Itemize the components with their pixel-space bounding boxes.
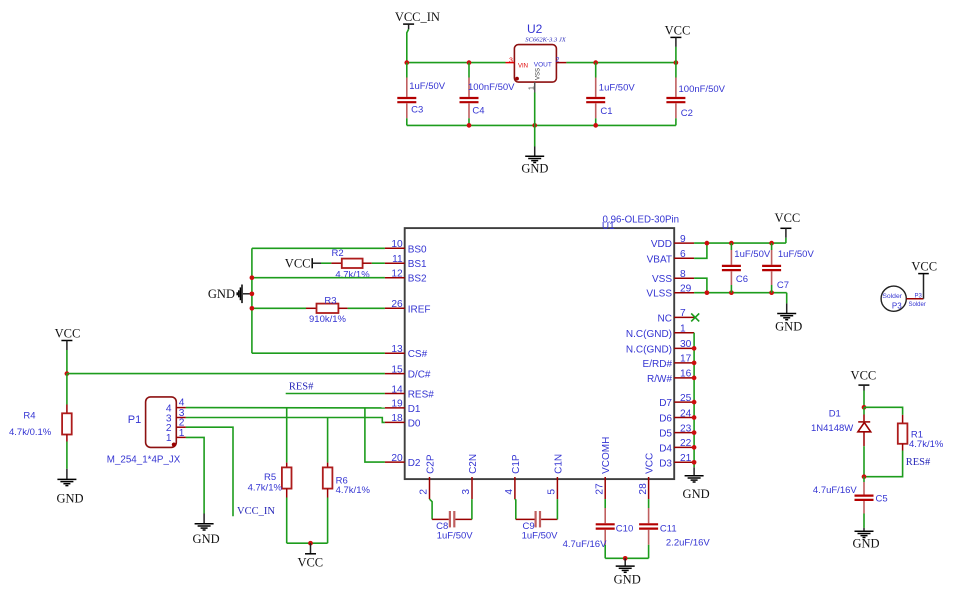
svg-text:1: 1 [166, 433, 172, 444]
svg-text:27: 27 [594, 483, 605, 495]
svg-text:9: 9 [680, 234, 686, 245]
power flag VCC (side, at R2) [285, 257, 321, 271]
wire D/C# long [67, 373, 385, 375]
svg-text:26: 26 [391, 299, 403, 310]
pin 12 BS2 [385, 269, 427, 285]
node junction pin21 [692, 460, 697, 465]
svg-text:GND: GND [521, 161, 548, 175]
svg-text:3: 3 [461, 489, 472, 495]
svg-text:RES#: RES# [906, 457, 931, 468]
power flag VCC (above C7) [775, 211, 801, 238]
svg-text:D/C#: D/C# [408, 370, 431, 381]
svg-text:N.C(GND): N.C(GND) [626, 329, 672, 340]
pin 27 VCOMH [594, 437, 612, 499]
svg-text:VCC: VCC [911, 260, 937, 274]
svg-text:12: 12 [391, 269, 403, 280]
ground GND (below P1) [193, 514, 220, 547]
pin 5 C1N [547, 454, 565, 499]
svg-text:P1: P1 [128, 414, 141, 426]
svg-text:GND: GND [852, 536, 879, 550]
svg-text:30: 30 [680, 339, 692, 350]
resistor R5 4.7k/1% [248, 408, 292, 543]
wire P1.4 to D1 [186, 407, 385, 409]
node junction VBAT/VDD [705, 241, 710, 246]
pin 1 N.C(GND) [626, 324, 694, 340]
resistor R6 4.7k/1% [323, 418, 371, 544]
svg-text:100nF/50V: 100nF/50V [468, 82, 515, 93]
svg-text:15: 15 [391, 364, 403, 375]
svg-text:VSS: VSS [535, 68, 541, 80]
node junction pin24 [692, 415, 697, 420]
pin 3 C2N [461, 454, 479, 499]
node junction BS2 [250, 275, 255, 280]
wire P1.2 to VCC_IN label [186, 427, 233, 516]
node junction D1/R1 bottom [862, 474, 867, 479]
wire P1.1 to GND [186, 437, 204, 513]
svg-text:R/W#: R/W# [647, 374, 672, 385]
node junction C6 bottom [729, 290, 734, 295]
power flag VCC (at P3) [911, 260, 937, 274]
connector P1 M_254_1*4P_JX [107, 397, 186, 466]
svg-text:19: 19 [391, 399, 403, 410]
power flag VCC (above D1) [851, 369, 877, 391]
svg-text:16: 16 [680, 369, 692, 380]
capacitor C7 1uF/50V [762, 243, 814, 293]
wire VBAT to VDD [694, 243, 707, 258]
svg-text:4.7k/1%: 4.7k/1% [336, 485, 371, 496]
pin 30 N.C(GND) [626, 339, 694, 355]
ground GND (below R4) [56, 469, 83, 506]
wire R5/R6 common [287, 542, 328, 544]
svg-text:C7: C7 [777, 280, 789, 291]
pin 15 D/C# [385, 364, 431, 380]
wire BS0 [252, 247, 385, 249]
power flag VCC (left, above R4) [55, 327, 81, 351]
pin 19 D1 [385, 399, 421, 415]
wire VCC to D1 junction [863, 391, 865, 408]
svg-text:P3: P3 [915, 293, 923, 299]
node junction pin23 [692, 430, 697, 435]
wire VCC drop right [785, 238, 787, 243]
svg-text:BS0: BS0 [408, 244, 427, 255]
svg-text:2: 2 [419, 489, 430, 495]
solder jumper P3 [881, 286, 926, 311]
svg-text:D0: D0 [408, 418, 421, 429]
svg-text:U1: U1 [602, 221, 615, 232]
svg-text:D1: D1 [829, 409, 841, 420]
svg-text:D7: D7 [659, 398, 672, 409]
svg-text:C1P: C1P [511, 454, 522, 474]
node junction VSS/VLSS [705, 290, 710, 295]
svg-text:17: 17 [680, 354, 692, 365]
wire VLSS rail [694, 292, 787, 294]
pin 23 D5 [659, 423, 694, 439]
node junction pin30 [692, 346, 697, 351]
svg-text:100nF/50V: 100nF/50V [679, 84, 726, 95]
svg-text:VCC: VCC [665, 24, 691, 38]
svg-text:R2: R2 [332, 248, 344, 259]
ground GND (side, rotated) [208, 285, 252, 304]
wire P1.3 to D0 (jog) [186, 418, 385, 423]
node junction C1 top [593, 60, 598, 65]
node junction C10/C11 GND [623, 556, 628, 561]
svg-text:C1: C1 [600, 106, 612, 117]
ground GND (below C10/C11) [614, 558, 641, 586]
svg-text:21: 21 [680, 453, 692, 464]
regulator U2 SC662K-3.3 JX [506, 22, 567, 93]
wire top rail left (VCC_IN net) [407, 62, 506, 64]
svg-text:2.2uF/16V: 2.2uF/16V [666, 537, 710, 548]
svg-text:C4: C4 [472, 106, 484, 117]
pin 3 stub [176, 417, 186, 419]
svg-text:D3: D3 [659, 458, 672, 469]
svg-text:10: 10 [391, 239, 403, 250]
pin 2 C2P [419, 454, 437, 499]
pin 3 VIN stub [506, 62, 515, 64]
wire U2 VSS to rail [534, 93, 536, 126]
wire P3 to VCC [923, 274, 925, 299]
svg-text:C3: C3 [411, 104, 423, 115]
svg-text:VCC: VCC [775, 211, 801, 225]
node junction D1/R1 top [862, 405, 867, 410]
node junction pin25 [692, 400, 697, 405]
wire VCC_IN drop [407, 29, 409, 62]
node junction pin16 [692, 376, 697, 381]
svg-text:24: 24 [680, 408, 692, 419]
svg-text:BS2: BS2 [408, 274, 427, 285]
node junction VCC_IN/C3 [404, 60, 409, 65]
svg-text:VIN: VIN [518, 64, 528, 70]
svg-text:28: 28 [638, 483, 649, 495]
wire right GND bus [693, 333, 695, 468]
node junction IREF [250, 306, 255, 311]
wire top rail right (VCC net) [566, 62, 676, 64]
svg-text:VOUT: VOUT [534, 62, 552, 69]
svg-text:VCC: VCC [55, 327, 81, 341]
wire bottom rail (GND net) [407, 124, 676, 126]
svg-text:RES#: RES# [289, 382, 314, 393]
capacitor C5 4.7uF/16V [813, 477, 888, 528]
node junction pin22 [692, 445, 697, 450]
svg-text:SC662K-3.3 JX: SC662K-3.3 JX [525, 37, 566, 44]
svg-text:GND: GND [775, 319, 802, 333]
pin 21 D3 [659, 453, 694, 469]
svg-text:P3: P3 [892, 301, 902, 310]
svg-text:C2N: C2N [468, 454, 479, 474]
wire to R1 [864, 407, 903, 415]
power flag VCC_IN [395, 10, 440, 29]
pin 17 E/RD# [643, 354, 695, 370]
diode D1 1N4148W [811, 407, 871, 476]
svg-text:GND: GND [683, 487, 710, 501]
svg-text:23: 23 [680, 423, 692, 434]
pin 6 VBAT [647, 249, 694, 265]
svg-text:N.C(GND): N.C(GND) [626, 344, 672, 355]
svg-text:U2: U2 [527, 22, 543, 36]
svg-text:20: 20 [391, 453, 403, 464]
svg-text:CS#: CS# [408, 349, 428, 360]
ground GND (below C5) [852, 528, 879, 551]
pin 24 D6 [659, 408, 694, 424]
svg-text:4: 4 [504, 489, 515, 495]
node junction C7 top [769, 241, 774, 246]
svg-text:C11: C11 [660, 524, 677, 535]
svg-text:18: 18 [391, 413, 403, 424]
wire BS2 [252, 277, 385, 279]
node junction VCC corner [674, 60, 679, 65]
svg-text:E/RD#: E/RD# [643, 359, 673, 370]
pin 1 stub [176, 436, 186, 438]
pin 20 D2 [385, 453, 421, 469]
pin 4 C1P [504, 454, 522, 499]
svg-text:8: 8 [680, 269, 686, 280]
svg-text:4.7k/1%: 4.7k/1% [335, 270, 370, 281]
wire VCC to junction [66, 350, 68, 374]
svg-text:4.7k/1%: 4.7k/1% [248, 483, 283, 494]
pin 7 NC [658, 308, 695, 324]
svg-text:13: 13 [391, 344, 403, 355]
svg-text:6: 6 [680, 249, 686, 260]
svg-text:GND: GND [208, 287, 235, 301]
svg-text:7: 7 [680, 308, 686, 319]
svg-text:C2: C2 [681, 108, 693, 119]
svg-text:VCC: VCC [851, 369, 877, 383]
svg-text:D5: D5 [659, 429, 672, 440]
svg-text:1uF/50V: 1uF/50V [599, 82, 636, 93]
svg-text:BS1: BS1 [408, 259, 427, 270]
capacitor C11 2.2uF/16V [639, 499, 710, 558]
wire VLSS to GND [786, 293, 788, 304]
svg-text:C5: C5 [876, 494, 888, 505]
pin 25 D7 [659, 393, 694, 409]
node junction C4 top [467, 60, 472, 65]
svg-text:1uF/50V: 1uF/50V [409, 81, 446, 92]
wire C10/C11 common [605, 557, 648, 559]
capacitor C9 1uF/50V (flying cap C1P-C1N) [515, 499, 558, 541]
svg-text:VCC_IN: VCC_IN [237, 506, 275, 517]
ground GND (below C7) [775, 303, 802, 333]
pin 18 D0 [385, 413, 421, 429]
resistor R3 910k/1% [252, 295, 385, 325]
svg-text:NC: NC [658, 313, 672, 324]
power flag VCC (top right) [665, 24, 691, 47]
capacitor C2 100nF/50V [666, 63, 725, 126]
capacitor C8 1uF/50V (flying cap C2P-C2N) [430, 499, 474, 541]
resistor R1 4.7k/1% [864, 415, 944, 477]
svg-text:VLSS: VLSS [646, 289, 672, 300]
pin 16 R/W# [647, 369, 694, 385]
svg-text:910k/1%: 910k/1% [309, 314, 347, 325]
svg-text:C6: C6 [736, 274, 748, 285]
svg-text:3: 3 [509, 58, 513, 65]
svg-text:Solder: Solder [909, 302, 926, 308]
svg-text:14: 14 [391, 384, 403, 395]
capacitor C1 1uF/50V [586, 63, 635, 126]
wire CS# [252, 352, 385, 354]
no-connect X on pin 7 [691, 313, 699, 321]
wire VCC drop [675, 47, 677, 63]
svg-text:VCC_IN: VCC_IN [395, 10, 440, 24]
wire VDD rail [694, 242, 786, 244]
capacitor C4 100nF/50V [460, 63, 516, 126]
svg-text:1: 1 [680, 324, 686, 335]
svg-text:GND: GND [56, 492, 83, 506]
wire vertical bus BS0/BS2/GND/IREF/CS# [251, 248, 253, 353]
capacitor C3 1uF/50V [397, 63, 445, 126]
svg-text:RES#: RES# [408, 390, 435, 401]
svg-text:VCC: VCC [645, 453, 656, 474]
svg-text:C2P: C2P [425, 454, 436, 474]
capacitor C10 4.7uF/16V [563, 499, 634, 558]
svg-text:D4: D4 [659, 443, 672, 454]
svg-text:25: 25 [680, 393, 692, 404]
svg-text:D6: D6 [659, 414, 672, 425]
svg-text:11: 11 [392, 254, 403, 265]
svg-text:GND: GND [614, 573, 641, 587]
power flag VCC (down, below R5/R6) [297, 543, 323, 569]
svg-text:GND: GND [193, 532, 220, 546]
node junction C6 top [729, 241, 734, 246]
pin 4 stub [176, 407, 186, 409]
svg-text:1uF/50V: 1uF/50V [734, 249, 771, 260]
node junction U2 VSS/GND [532, 123, 537, 128]
pin 13 CS# [385, 344, 428, 360]
svg-text:4.7k/0.1%: 4.7k/0.1% [9, 427, 52, 438]
pin 9 VDD [651, 234, 694, 250]
ground GND (right pin bus) [683, 467, 710, 501]
pin 28 VCC [638, 453, 656, 499]
svg-text:R5: R5 [264, 472, 276, 483]
svg-text:1uF/50V: 1uF/50V [778, 249, 815, 260]
svg-text:VBAT: VBAT [647, 254, 672, 265]
svg-text:1uF/50V: 1uF/50V [437, 531, 474, 542]
node junction C1 bottom [593, 123, 598, 128]
svg-text:VSS: VSS [652, 274, 672, 285]
svg-text:22: 22 [680, 438, 692, 449]
svg-text:5: 5 [547, 489, 558, 495]
svg-text:VDD: VDD [651, 239, 672, 250]
svg-text:VCC: VCC [297, 556, 323, 570]
svg-text:VCC: VCC [285, 257, 311, 271]
wire VSS to VLSS [694, 278, 707, 293]
pin 29 VLSS [646, 284, 694, 300]
svg-text:D1: D1 [408, 404, 421, 415]
pin 8 VSS [652, 269, 694, 285]
pin 10 BS0 [385, 239, 427, 255]
pin 22 D4 [659, 438, 694, 454]
wire rail to GND [534, 125, 536, 146]
pin 14 RES# [385, 384, 434, 400]
svg-text:4.7k/1%: 4.7k/1% [909, 439, 944, 450]
node junction C7 bottom [769, 290, 774, 295]
svg-text:1N4148W: 1N4148W [811, 423, 853, 434]
wire RES# with net label [286, 393, 385, 395]
svg-text:R3: R3 [324, 295, 336, 306]
svg-text:4.7uF/16V: 4.7uF/16V [563, 539, 607, 550]
svg-text:R4: R4 [23, 410, 35, 421]
svg-text:C1N: C1N [553, 454, 564, 474]
svg-text:D2: D2 [408, 458, 421, 469]
capacitor C6 1uF/50V [722, 243, 771, 293]
pin stub P3 [906, 298, 923, 300]
node junction D/C# tap [65, 371, 70, 376]
node junction side GND [250, 291, 255, 296]
pin 11 BS1 [385, 254, 427, 270]
node junction C4 bottom [467, 123, 472, 128]
svg-text:Solder: Solder [882, 293, 902, 300]
node junction VCC bottom [308, 541, 313, 546]
pin 26 IREF [385, 299, 431, 315]
resistor R4 4.7k/0.1% [9, 374, 72, 469]
node junction pin17 [692, 361, 697, 366]
svg-text:VCOMH: VCOMH [601, 437, 612, 474]
svg-text:M_254_1*4P_JX: M_254_1*4P_JX [107, 454, 181, 465]
svg-text:C10: C10 [616, 524, 633, 535]
resistor R2 4.7k/1% [321, 248, 385, 281]
wire D2 drop [365, 408, 385, 462]
pin 2 VOUT stub [556, 62, 566, 64]
svg-text:4.7uF/16V: 4.7uF/16V [813, 485, 857, 496]
pin 1 VSS stub [534, 82, 536, 92]
svg-text:29: 29 [680, 284, 692, 295]
svg-text:IREF: IREF [408, 304, 431, 315]
ground GND (top section) [521, 147, 548, 176]
pin 2 stub [176, 426, 186, 428]
svg-text:1uF/50V: 1uF/50V [522, 531, 559, 542]
